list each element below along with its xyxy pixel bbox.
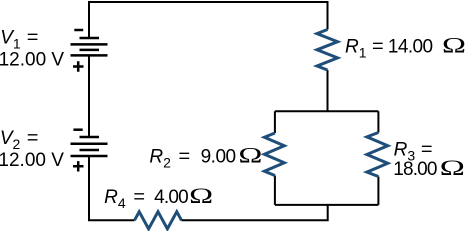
- battery V1: [71, 30, 108, 72]
- wire: R1 lead down into box top: [327, 70, 329, 111]
- V1 plate long: [71, 43, 108, 46]
- svg-text:R4=4.00Ω: R4=4.00Ω: [104, 183, 213, 211]
- svg-text:18.00Ω: 18.00Ω: [393, 155, 464, 180]
- V1 plus sign: [73, 61, 84, 71]
- V2 plate short (negative, top): [80, 136, 100, 139]
- V2 plate short: [80, 149, 100, 152]
- svg-text:12.00 V: 12.00 V: [0, 49, 64, 70]
- resistor R2 (zigzag): [264, 133, 284, 176]
- V2 plate long: [71, 143, 108, 146]
- resistor R4 (zigzag): [135, 212, 182, 229]
- svg-text:R2=9.00Ω: R2=9.00Ω: [149, 142, 262, 170]
- svg-text:V2=: V2=: [0, 128, 39, 152]
- wire: V2 down, bottom-left corner to R4: [89, 156, 135, 220]
- resistor R1 (zigzag): [317, 30, 338, 71]
- V2 plate long (positive, bottom): [71, 155, 108, 158]
- svg-text:12.00 V: 12.00 V: [0, 150, 64, 171]
- V1 plate long (positive, bottom): [71, 54, 108, 57]
- wire: bottom right of R4 up to box bottom: [182, 205, 328, 220]
- V2 minus sign: [73, 128, 82, 131]
- wire: parallel box bottom: [275, 204, 379, 206]
- wire: top loop from V1 top plate, across top, down to R1: [89, 2, 328, 38]
- V1 minus sign: [74, 29, 83, 32]
- wire: right branch leads of R3: [377, 111, 379, 205]
- V2 plus sign: [73, 161, 84, 171]
- svg-text:R1=14.00Ω: R1=14.00Ω: [345, 33, 465, 61]
- V1 plate short (negative, top): [80, 37, 100, 40]
- svg-text:V1=: V1=: [0, 28, 38, 52]
- V1 plate short: [80, 49, 100, 52]
- wire: left branch leads of R2: [274, 111, 276, 205]
- wire: parallel box top: [275, 110, 379, 112]
- battery V2: [71, 130, 108, 172]
- resistor R3 (zigzag): [367, 133, 388, 177]
- wire: between V1 and V2: [88, 55, 90, 137]
